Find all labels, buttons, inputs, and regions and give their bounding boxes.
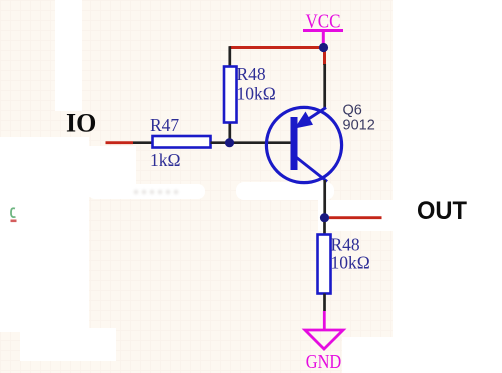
transistor Q6 emitter line with arrow: [295, 108, 327, 129]
svg-text:R48: R48: [237, 64, 266, 84]
wire: black vertical from corner down to R48 top: [228, 46, 231, 67]
ground symbol triangle: [305, 330, 343, 349]
svg-text:OUT: OUT: [417, 197, 467, 225]
transistor Q6 collector line: [294, 156, 327, 182]
wire: black vertical from R48 lower bottom: [323, 294, 326, 312]
resistor R48 (upper) body: [224, 67, 237, 123]
svg-text:R47: R47: [150, 115, 179, 135]
transistor Q6 base bar: [291, 117, 298, 170]
svg-text:IO: IO: [66, 109, 96, 138]
white background patches (scan artifacts): [393, 0, 502, 373]
wire: red vertical below VCC node: [323, 48, 326, 66]
svg-text:1kΩ: 1kΩ: [150, 150, 181, 170]
svg-text:GND: GND: [306, 351, 342, 373]
svg-text:10kΩ: 10kΩ: [237, 84, 276, 104]
transistor Q6 circle: [266, 107, 341, 182]
wire: black vertical from collector to OUT node: [323, 180, 326, 218]
stray green mark at left edge: [11, 208, 17, 222]
node: base junction dot: [225, 138, 234, 147]
svg-text:Q6: Q6: [343, 103, 362, 119]
wire: red stub from IO: [106, 141, 134, 144]
svg-text:10kΩ: 10kΩ: [331, 253, 370, 273]
wire: black vertical from VCC branch to transistor emitter: [323, 64, 326, 109]
wire: black vertical from OUT node to R48 lower top: [323, 222, 326, 235]
power symbol VCC: [303, 11, 343, 48]
node: VCC junction dot: [319, 43, 328, 52]
svg-text:9012: 9012: [343, 118, 375, 134]
wire: red horizontal from R48 top corner to VCC node: [230, 46, 323, 49]
node: OUT junction dot: [320, 213, 329, 222]
wire: magenta vertical to ground symbol: [323, 311, 326, 330]
wire: black base wire from R47 right to transistor base: [211, 141, 292, 144]
resistor R48 (lower) body: [318, 235, 331, 294]
resistor R47 body: [153, 136, 211, 148]
wire: black vertical from R48 bottom to base wire: [228, 122, 231, 143]
wire: black from red stub to R47 left: [133, 141, 153, 144]
svg-text:R48: R48: [331, 235, 360, 255]
wire: red stub to OUT: [329, 216, 382, 219]
